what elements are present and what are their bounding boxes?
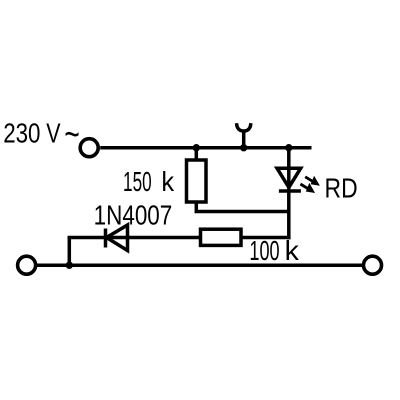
wire: LED column — [287, 148, 291, 240]
resistor 100 k (horizontal) — [201, 229, 242, 245]
LED RD triangle — [277, 168, 301, 187]
LED RD emission arrow 2 — [300, 183, 315, 193]
wire: stub from top wire to R1 — [195, 148, 199, 160]
wire: probe stem — [242, 131, 246, 148]
svg-text:RD: RD — [325, 172, 358, 203]
terminal: bottom-right (open circle) — [364, 256, 382, 274]
node: junction on bottom line — [66, 262, 73, 269]
wire: bottom horizontal — [37, 263, 362, 267]
wire: bottom line up to diode line — [68, 238, 72, 266]
terminal: 230 V input (open circle) — [80, 139, 98, 157]
svg-text:~: ~ — [64, 114, 79, 156]
diode 1N4007 cathode bar — [104, 229, 108, 248]
wire: top horizontal — [100, 146, 311, 150]
node: junction above LED — [285, 144, 292, 151]
svg-text:k: k — [285, 235, 299, 266]
probe contact symbol (open cup) — [237, 123, 251, 131]
wire: middle horizontal — [68, 236, 291, 240]
svg-text:V: V — [46, 118, 61, 149]
svg-text:k: k — [161, 166, 174, 197]
node: junction above 150k — [193, 144, 200, 151]
terminal: bottom-left (open circle) — [18, 256, 36, 274]
LED RD cathode bar — [279, 189, 301, 193]
LED RD emission arrow 1 — [305, 176, 320, 186]
svg-text:150: 150 — [123, 166, 152, 197]
node: junction at probe stem — [240, 144, 247, 151]
wire: R1 bottom to LED column — [196, 202, 288, 212]
svg-text:230: 230 — [3, 118, 40, 149]
svg-text:100: 100 — [249, 235, 279, 266]
svg-text:1N4007: 1N4007 — [94, 200, 173, 231]
resistor 150 k (vertical) — [187, 160, 207, 202]
diode 1N4007 triangle — [107, 225, 128, 251]
